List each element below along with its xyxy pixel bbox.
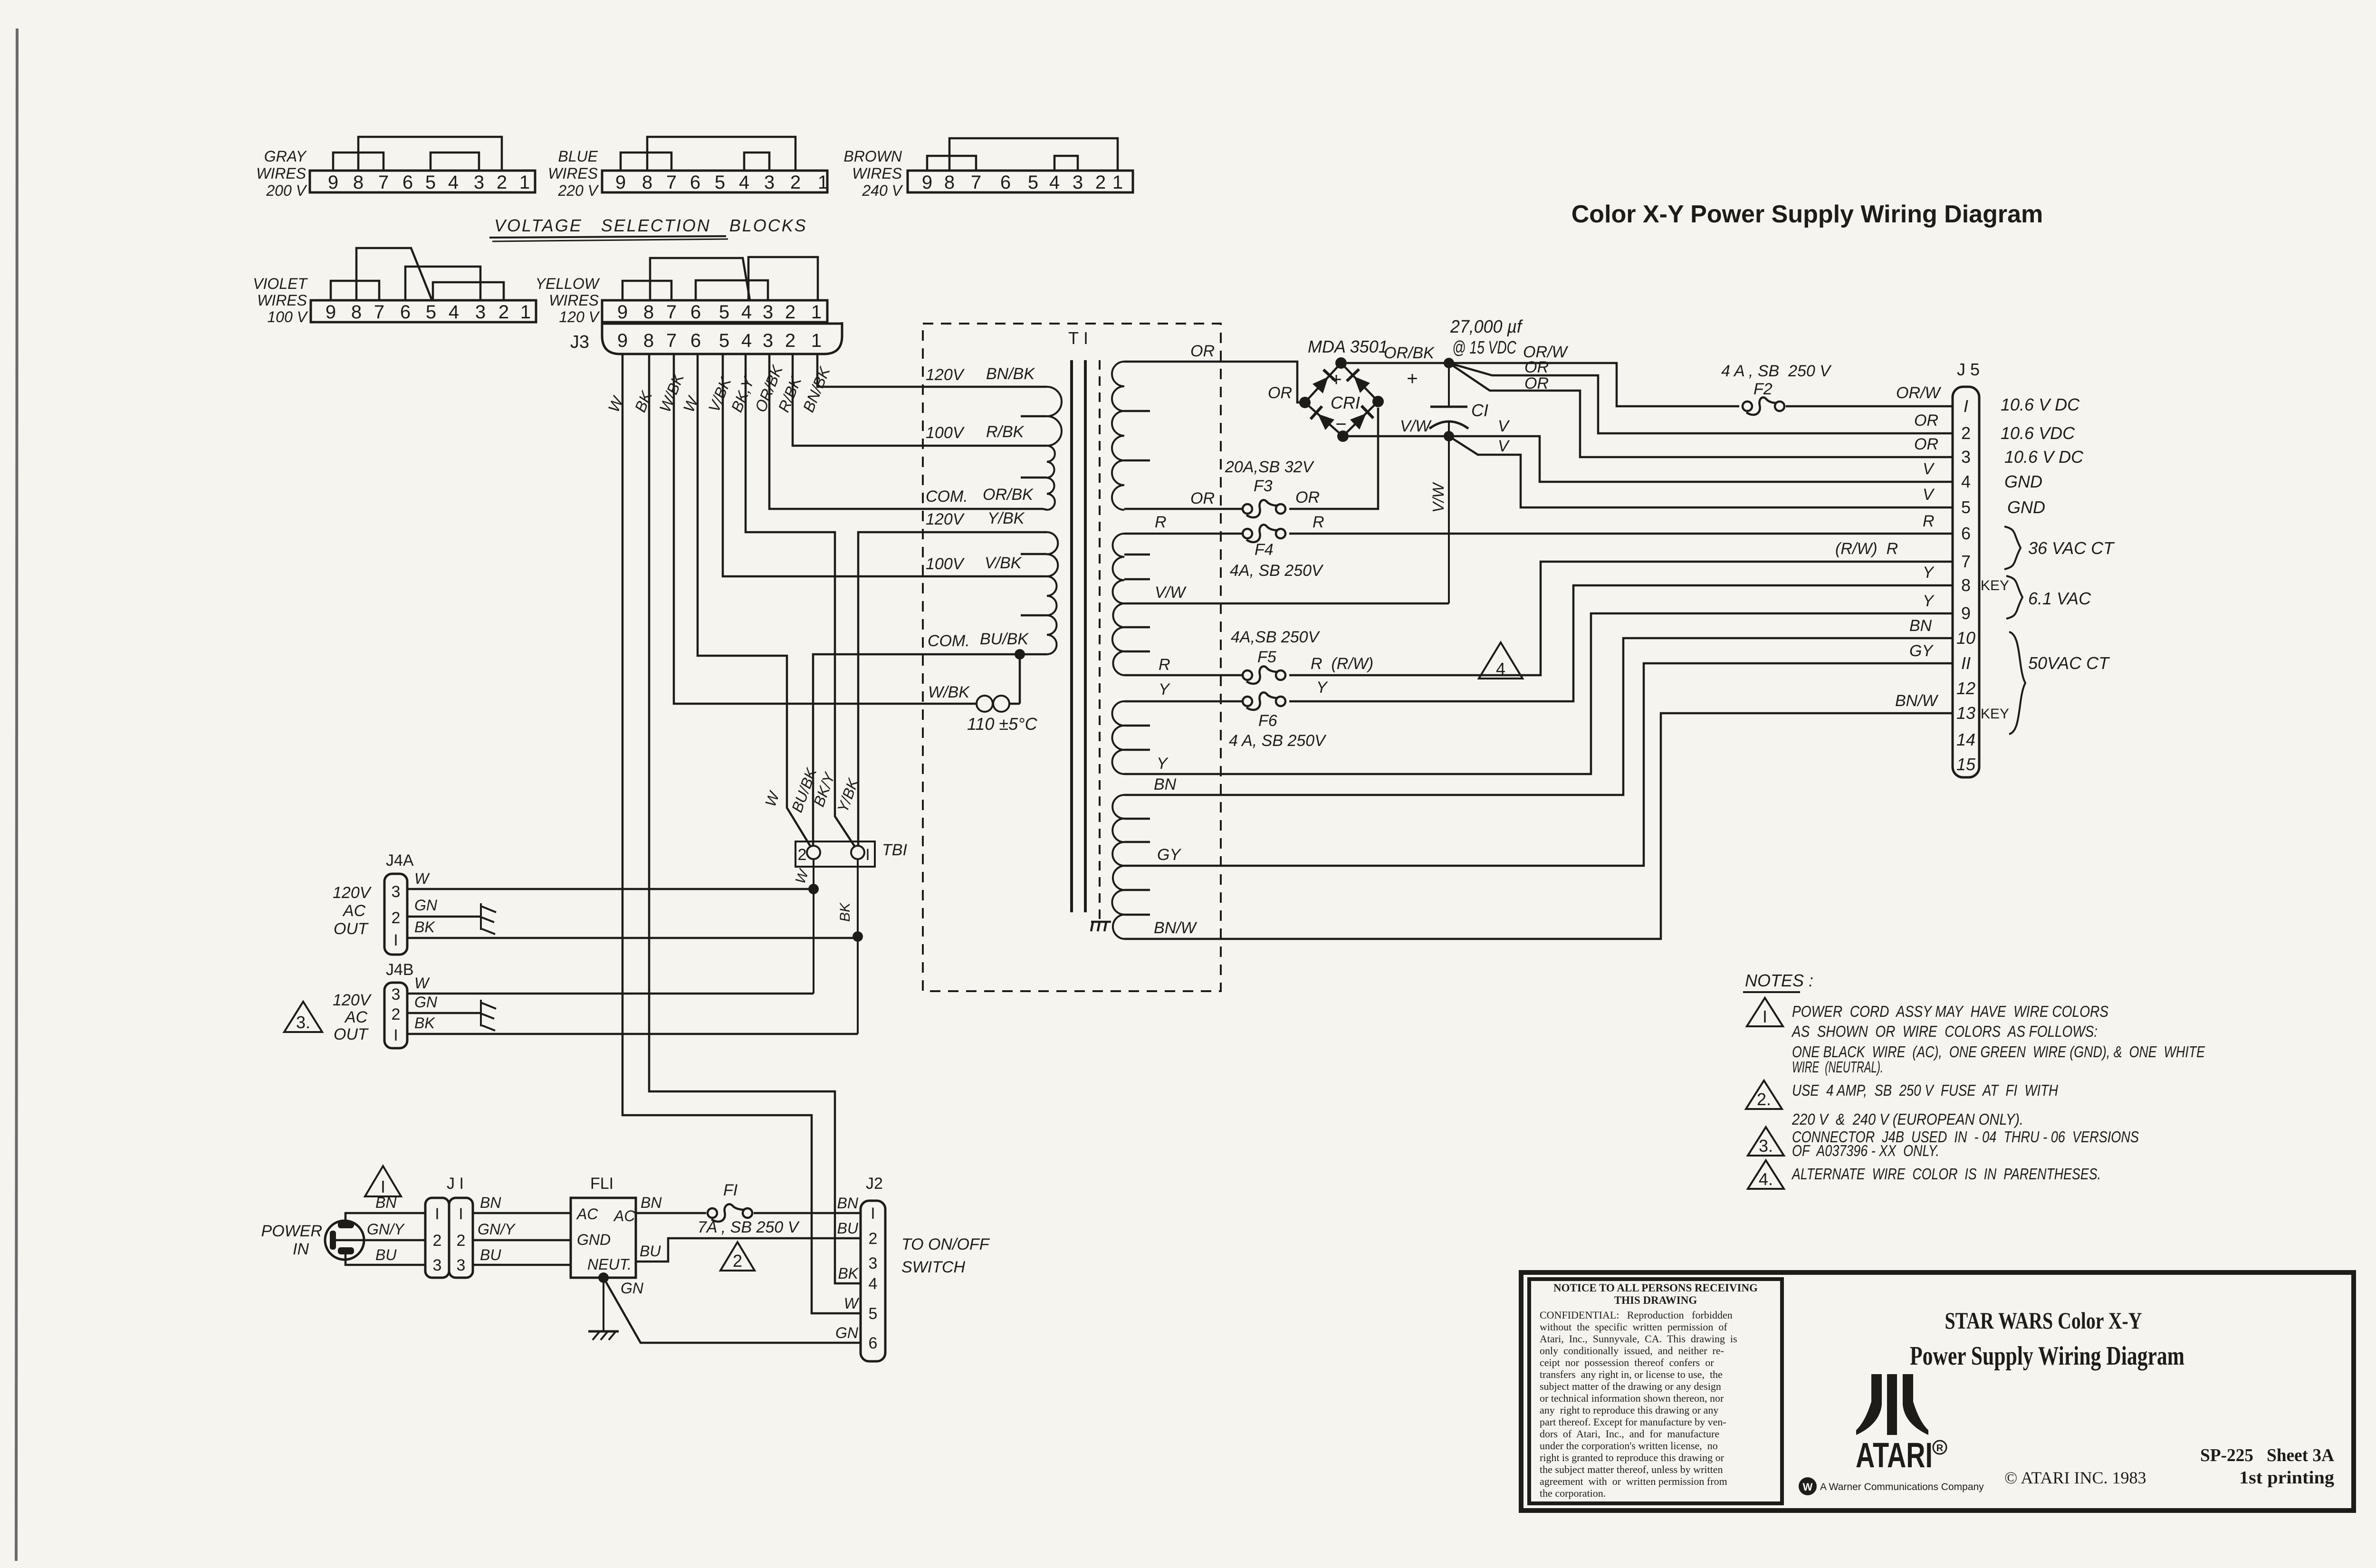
svg-text:J 5: J 5 xyxy=(1957,360,1980,379)
svg-text:OR: OR xyxy=(1914,411,1938,430)
wire BK J4B-1 xyxy=(407,1033,858,1035)
svg-text:W: W xyxy=(793,867,813,886)
svg-text:2: 2 xyxy=(798,846,807,864)
svg-text:1: 1 xyxy=(1112,172,1123,193)
svg-text:ceipt nor possession thereo: ceipt nor possession thereof confers or xyxy=(1540,1357,1714,1368)
wire Y/BK T1 primary 120V to TB1-1 xyxy=(858,532,1043,846)
svg-text:F3: F3 xyxy=(1254,477,1273,495)
svg-text:4: 4 xyxy=(449,302,459,323)
wire OR to J5-3 xyxy=(1449,363,1953,457)
svg-text:3: 3 xyxy=(392,883,401,901)
wire BU J1 to FL1 xyxy=(473,1264,571,1266)
note triangle 1 (power cord) xyxy=(365,1166,401,1196)
svg-text:15: 15 xyxy=(1956,755,1976,774)
svg-text:BLUE: BLUE xyxy=(558,148,598,165)
svg-text:8: 8 xyxy=(643,330,654,351)
svg-text:BROWN: BROWN xyxy=(843,148,902,165)
svg-text:120 V: 120 V xyxy=(559,308,600,325)
svg-text:I: I xyxy=(435,1205,439,1223)
svg-text:(R/W) R: (R/W) R xyxy=(1835,540,1898,558)
svg-text:4A, SB 250V: 4A, SB 250V xyxy=(1230,562,1324,580)
svg-text:@ 15 VDC: @ 15 VDC xyxy=(1452,338,1516,358)
svg-text:−: − xyxy=(1335,414,1346,435)
svg-text:J4A: J4A xyxy=(386,851,414,870)
svg-text:8: 8 xyxy=(642,172,652,193)
svg-text:F5: F5 xyxy=(1257,648,1276,666)
svg-text:2: 2 xyxy=(733,1251,742,1271)
svg-text:Y: Y xyxy=(1157,755,1169,773)
svg-text:WIRES: WIRES xyxy=(852,165,902,182)
voltage block GRAY 200V xyxy=(310,171,535,192)
svg-text:J I: J I xyxy=(447,1175,464,1193)
svg-text:CI: CI xyxy=(1471,401,1488,420)
svg-text:2: 2 xyxy=(433,1232,442,1250)
svg-text:GN: GN xyxy=(835,1324,859,1341)
svg-text:220 V & 240 V (EUROPEAN ONLY: 220 V & 240 V (EUROPEAN ONLY). xyxy=(1792,1110,2023,1128)
chassis ground (J4A GN) xyxy=(480,903,482,930)
svg-text:WIRES: WIRES xyxy=(548,165,598,182)
svg-text:4: 4 xyxy=(1961,472,1971,491)
svg-text:dors of Atari, Inc., and: dors of Atari, Inc., and for manufacture xyxy=(1540,1428,1719,1440)
svg-text:OR: OR xyxy=(1524,374,1549,392)
transformer T1 dashed box xyxy=(923,324,1221,991)
TB1 terminal 2 xyxy=(807,846,820,859)
svg-text:Y: Y xyxy=(1316,679,1328,697)
svg-text:10.6 V DC: 10.6 V DC xyxy=(2001,395,2080,414)
svg-text:+: + xyxy=(1331,369,1341,390)
svg-text:7: 7 xyxy=(374,302,384,323)
svg-text:4.: 4. xyxy=(1759,1169,1773,1189)
T1 secondary winding Y-Y xyxy=(1112,701,1125,774)
T1 secondary ticks S3 xyxy=(1124,725,1150,727)
wire BN plug to J1-1 xyxy=(345,1213,425,1221)
svg-text:VOLTAGE SELECTION BLOCKS: VOLTAGE SELECTION BLOCKS xyxy=(494,216,807,235)
svg-text:6: 6 xyxy=(869,1334,878,1352)
wire W TB1-2 down xyxy=(813,859,814,994)
svg-text:STAR WARS Color X-Y: STAR WARS Color X-Y xyxy=(1945,1307,2142,1334)
fuse F6 xyxy=(1243,697,1252,706)
svg-text:BN: BN xyxy=(480,1194,501,1211)
svg-text:GN/Y: GN/Y xyxy=(367,1221,405,1238)
svg-text:6: 6 xyxy=(1961,524,1971,543)
svg-text:YELLOW: YELLOW xyxy=(536,275,600,292)
svg-text:9: 9 xyxy=(922,172,932,193)
svg-text:without the specific writte: without the specific written permission … xyxy=(1540,1321,1727,1333)
svg-text:14: 14 xyxy=(1956,730,1975,749)
svg-text:3: 3 xyxy=(392,985,401,1004)
wire Y to F6 xyxy=(1124,700,1244,703)
connector J3 xyxy=(602,322,842,354)
thermal cutoff 110C xyxy=(977,696,993,712)
wire OR/BK bridge to C1 xyxy=(1347,362,1449,364)
svg-text:7: 7 xyxy=(666,172,677,193)
svg-text:AC: AC xyxy=(342,902,366,920)
svg-text:CONFIDENTIAL: Reproduction: CONFIDENTIAL: Reproduction forbidden xyxy=(1540,1309,1733,1321)
svg-text:BK: BK xyxy=(837,902,853,922)
TB1 terminal 1 xyxy=(851,846,864,859)
svg-text:6: 6 xyxy=(1000,172,1011,193)
wire BN F1 to J2-1 xyxy=(754,1212,861,1214)
voltage block BROWN 240V xyxy=(908,171,1133,192)
svg-text:50VAC CT: 50VAC CT xyxy=(2028,653,2110,673)
wire V/W C1 to transformer xyxy=(1448,436,1450,603)
svg-text:I: I xyxy=(871,1205,875,1223)
svg-text:GN: GN xyxy=(414,897,438,914)
svg-text:Power Supply Wiring Diagram: Power Supply Wiring Diagram xyxy=(1910,1341,2184,1371)
svg-text:1: 1 xyxy=(811,302,822,323)
svg-text:R (R/W): R (R/W) xyxy=(1311,655,1373,673)
svg-text:OR/W: OR/W xyxy=(1896,384,1941,402)
svg-text:OR/BK: OR/BK xyxy=(1384,344,1435,362)
svg-text:4 A , SB 250 V: 4 A , SB 250 V xyxy=(1721,362,1832,380)
junction dot BU/BK at thermal cutoff xyxy=(1015,649,1025,660)
svg-text:WIRES: WIRES xyxy=(256,165,306,182)
svg-text:W: W xyxy=(844,1295,860,1312)
svg-text:AC: AC xyxy=(576,1205,598,1223)
svg-text:KEY: KEY xyxy=(1981,706,2009,722)
svg-text:OF A037396 - XX ONLY.: OF A037396 - XX ONLY. xyxy=(1792,1142,1939,1159)
svg-text:BK: BK xyxy=(631,388,656,415)
svg-text:1: 1 xyxy=(811,330,822,351)
svg-text:2: 2 xyxy=(1095,172,1106,193)
svg-text:T I: T I xyxy=(1068,328,1088,348)
T1 secondary winding GY-BN/W xyxy=(1112,866,1124,939)
wire BN FL1 to F1 xyxy=(636,1212,706,1214)
svg-text:3: 3 xyxy=(763,302,773,323)
wire BK J4A-1 xyxy=(407,937,858,939)
svg-text:+: + xyxy=(1407,368,1418,389)
svg-text:OR/BK: OR/BK xyxy=(983,486,1034,504)
svg-text:V/W: V/W xyxy=(1155,583,1187,602)
svg-text:7: 7 xyxy=(666,302,677,323)
svg-text:3.: 3. xyxy=(1759,1136,1773,1156)
wire BN/W to J5-13 xyxy=(1124,713,1953,939)
svg-text:120V: 120V xyxy=(926,510,965,528)
svg-text:100V: 100V xyxy=(926,555,965,573)
svg-text:POWER CORD ASSY MAY HAVE W: POWER CORD ASSY MAY HAVE WIRE COLORS xyxy=(1792,1003,2108,1020)
chassis ground (J4B GN) xyxy=(480,1000,482,1026)
wire W J3-6 to TB1-2 xyxy=(698,354,811,847)
note triangle 1 xyxy=(1747,998,1783,1026)
svg-text:MDA 3501: MDA 3501 xyxy=(1308,337,1388,356)
svg-text:8: 8 xyxy=(1961,575,1971,595)
wire OR to J5-2 xyxy=(1449,363,1953,433)
svg-text:I: I xyxy=(381,1177,385,1196)
wire GN/Y plug to J1-2 xyxy=(336,1239,425,1242)
svg-text:OR: OR xyxy=(1190,489,1215,507)
svg-text:V: V xyxy=(1923,486,1935,504)
svg-text:V: V xyxy=(1923,460,1935,478)
svg-text:OUT: OUT xyxy=(334,920,369,938)
svg-text:9: 9 xyxy=(326,302,336,323)
svg-text:BU: BU xyxy=(480,1246,501,1263)
svg-text:A Warner Communications Compan: A Warner Communications Company xyxy=(1820,1482,1984,1492)
T1 primary tap stubs 2 xyxy=(1043,531,1047,534)
svg-text:VIOLET: VIOLET xyxy=(253,275,308,292)
wire GY to J5-11 xyxy=(1124,663,1953,866)
connector J4B xyxy=(384,983,407,1048)
svg-text:F2: F2 xyxy=(1753,380,1772,398)
svg-text:Atari, Inc., Sunnyvale, CA.: Atari, Inc., Sunnyvale, CA. This drawing… xyxy=(1540,1333,1737,1345)
svg-text:POWER: POWER xyxy=(261,1222,322,1240)
svg-text:8: 8 xyxy=(353,172,364,193)
svg-text:7: 7 xyxy=(378,172,389,193)
svg-text:I: I xyxy=(1964,396,1968,416)
wire R F4 to J5-6 xyxy=(1289,533,1953,535)
wire R to F4 xyxy=(1124,533,1244,535)
svg-text:BU: BU xyxy=(640,1243,661,1260)
svg-text:R: R xyxy=(1155,513,1167,531)
svg-text:5: 5 xyxy=(719,330,729,351)
svg-text:right is granted to reproduce: right is granted to reproduce this drawi… xyxy=(1540,1452,1725,1463)
note triangle 4 (wire color) xyxy=(1479,642,1523,679)
wire V/BK J3-5 to T1 primary 100V xyxy=(723,354,1043,576)
svg-text:GND: GND xyxy=(2004,472,2042,491)
svg-text:4: 4 xyxy=(741,302,752,323)
voltage block YELLOW 120V xyxy=(602,300,827,322)
wire BU/BK T1 primary COM to TB1-2 xyxy=(813,654,1020,846)
svg-text:BN: BN xyxy=(641,1194,662,1211)
svg-text:© ATARI INC. 1983: © ATARI INC. 1983 xyxy=(2004,1468,2146,1487)
wire BU FL1 to J2-2 xyxy=(636,1238,861,1262)
svg-text:Y: Y xyxy=(1923,592,1935,610)
svg-text:9: 9 xyxy=(615,172,626,193)
svg-text:BN: BN xyxy=(1154,775,1177,794)
svg-text:W: W xyxy=(414,975,430,992)
wire OR bottom to F3 xyxy=(1124,508,1244,510)
bridge rectifier CR1 MDA 3501 xyxy=(1305,363,1378,436)
junction dot C1 bottom xyxy=(1444,431,1454,441)
earth ground (FL1) xyxy=(588,1330,619,1333)
svg-text:9: 9 xyxy=(1961,603,1971,623)
svg-text:OR: OR xyxy=(1295,488,1320,507)
power in plug xyxy=(325,1221,364,1260)
svg-text:any right to reproduce this d: any right to reproduce this drawing or a… xyxy=(1540,1404,1718,1416)
svg-text:J3: J3 xyxy=(570,332,589,352)
svg-text:4: 4 xyxy=(739,172,749,193)
note triangle 3 xyxy=(1748,1127,1784,1156)
svg-text:FLI: FLI xyxy=(590,1175,613,1193)
fuse F3 xyxy=(1243,504,1252,514)
wire BU plug to J1-3 xyxy=(345,1254,425,1265)
svg-text:AC: AC xyxy=(613,1207,635,1224)
junction dot BK xyxy=(853,931,863,942)
svg-text:2: 2 xyxy=(869,1230,878,1248)
wire NEUT to earth ground xyxy=(603,1278,604,1330)
T1 secondary winding V/W-R xyxy=(1112,603,1124,675)
svg-text:6: 6 xyxy=(402,172,413,193)
svg-text:GRAY: GRAY xyxy=(264,148,307,165)
svg-text:10.6 VDC: 10.6 VDC xyxy=(2001,423,2075,443)
wire BK TB1-1 down xyxy=(857,859,859,1034)
svg-text:6.1 VAC: 6.1 VAC xyxy=(2028,589,2091,608)
svg-text:7: 7 xyxy=(1961,552,1971,571)
svg-text:6: 6 xyxy=(690,302,701,323)
wire V to J5-5 xyxy=(1449,436,1953,507)
wire V/W to C1 xyxy=(1124,602,1449,605)
wire V/W bridge to C1 xyxy=(1349,435,1449,438)
svg-text:THIS DRAWING: THIS DRAWING xyxy=(1614,1294,1697,1306)
svg-text:under the corporation's writte: under the corporation's written license,… xyxy=(1540,1440,1718,1452)
svg-text:4: 4 xyxy=(869,1275,878,1293)
svg-text:4: 4 xyxy=(741,330,752,351)
svg-text:WIRES: WIRES xyxy=(257,292,307,309)
svg-text:I: I xyxy=(459,1205,463,1223)
svg-text:W: W xyxy=(762,788,783,809)
svg-text:5: 5 xyxy=(719,302,729,323)
svg-text:7: 7 xyxy=(971,172,981,193)
svg-text:AC: AC xyxy=(344,1008,368,1026)
svg-text:V/BK: V/BK xyxy=(985,554,1022,572)
svg-text:2: 2 xyxy=(785,330,795,351)
wire BN/BK J3-1 to T1 primary 120V xyxy=(817,354,1043,387)
svg-text:the corporation.: the corporation. xyxy=(1540,1487,1606,1499)
svg-text:4 A, SB 250V: 4 A, SB 250V xyxy=(1229,732,1327,750)
svg-text:R: R xyxy=(1159,656,1170,674)
connector J2 xyxy=(861,1201,885,1361)
svg-text:OUT: OUT xyxy=(334,1025,369,1043)
svg-text:BU: BU xyxy=(837,1220,859,1237)
svg-text:GY: GY xyxy=(1157,846,1181,864)
svg-text:OR: OR xyxy=(1524,358,1549,376)
svg-text:Y/BK: Y/BK xyxy=(987,509,1025,527)
svg-text:5: 5 xyxy=(1961,497,1971,517)
wire V to J5-4 xyxy=(1449,436,1953,482)
svg-text:BU: BU xyxy=(375,1246,397,1263)
svg-text:GN: GN xyxy=(414,994,438,1011)
svg-text:1st printing: 1st printing xyxy=(2239,1468,2334,1488)
svg-text:OR: OR xyxy=(1268,384,1292,402)
svg-text:8: 8 xyxy=(944,172,955,193)
svg-text:3: 3 xyxy=(433,1256,442,1274)
svg-text:2: 2 xyxy=(457,1232,466,1250)
svg-text:Y: Y xyxy=(1159,680,1170,698)
svg-text:BK: BK xyxy=(838,1265,859,1282)
svg-text:BK: BK xyxy=(414,1014,435,1032)
svg-text:2: 2 xyxy=(785,302,795,323)
voltage block BLUE 220V xyxy=(602,171,827,192)
svg-text:TBI: TBI xyxy=(882,841,907,859)
svg-text:II: II xyxy=(1961,653,1971,673)
brace 36 VAC CT xyxy=(2004,526,2021,569)
svg-text:120V: 120V xyxy=(333,884,372,902)
brace 50 VAC CT xyxy=(2009,632,2025,734)
T1 secondary ticks S1 xyxy=(1124,410,1150,412)
svg-text:or technical information shown: or technical information shown thereon, … xyxy=(1540,1392,1724,1404)
wire W J4B-3 xyxy=(407,993,814,995)
wire R/BK J3-2 to T1 primary 100V xyxy=(793,354,1043,446)
svg-text:BN: BN xyxy=(1909,617,1932,635)
wire W J4A-3 xyxy=(407,888,814,890)
fuse F2 xyxy=(1743,402,1752,411)
svg-text:I: I xyxy=(393,1026,398,1044)
wire OR F3 to bridge xyxy=(1289,408,1378,509)
svg-text:GY: GY xyxy=(1909,642,1934,660)
svg-text:5: 5 xyxy=(426,302,436,323)
svg-text:5: 5 xyxy=(715,172,725,193)
wire Y2 to J5-9 xyxy=(1124,613,1953,774)
svg-text:4A,SB 250V: 4A,SB 250V xyxy=(1231,628,1321,646)
T1 primary winding 1 (BN/BK-R/BK) xyxy=(1047,387,1062,446)
connector J5 xyxy=(1953,387,1979,777)
svg-text:7: 7 xyxy=(666,330,677,351)
svg-text:6: 6 xyxy=(690,172,700,193)
connector J4A xyxy=(384,874,407,955)
svg-text:3: 3 xyxy=(869,1254,878,1272)
wire GN J4B-2 xyxy=(407,1012,481,1014)
svg-text:120V: 120V xyxy=(926,366,965,384)
svg-text:240 V: 240 V xyxy=(862,182,903,199)
T1 secondary ticks S2 xyxy=(1124,554,1150,556)
svg-text:WIRES: WIRES xyxy=(549,292,599,309)
svg-text:V/W: V/W xyxy=(1400,417,1432,435)
wire GN/Y J1 to FL1 xyxy=(473,1239,571,1242)
svg-text:100 V: 100 V xyxy=(267,308,308,325)
T1 core ground xyxy=(1091,921,1111,923)
T1 secondary ticks S4 xyxy=(1124,818,1150,820)
T1 secondary winding R-V/W xyxy=(1113,534,1125,603)
svg-text:W: W xyxy=(1803,1481,1813,1493)
svg-text:NOTES :: NOTES : xyxy=(1745,971,1813,990)
T1 secondary winding OR-OR xyxy=(1112,362,1124,510)
svg-text:BN/W: BN/W xyxy=(1895,692,1939,710)
svg-text:NEUT.: NEUT. xyxy=(587,1256,632,1273)
wire R(R/W) F5 to J5-7 xyxy=(1289,562,1953,675)
svg-text:6: 6 xyxy=(400,302,411,323)
junction dot W xyxy=(808,884,819,894)
svg-text:Color X-Y Power Supply Wiring: Color X-Y Power Supply Wiring Diagram xyxy=(1571,201,2043,228)
Warner logo xyxy=(1799,1477,1817,1495)
svg-text:3.: 3. xyxy=(296,1013,310,1032)
svg-text:only conditionally issued,: only conditionally issued, and neither r… xyxy=(1540,1345,1724,1357)
wire BK J3-8 to J2-4 xyxy=(649,354,861,1283)
wire OR/W F2 to J5-1 xyxy=(1786,405,1953,408)
svg-text:F4: F4 xyxy=(1255,541,1274,559)
T1 secondary winding BN-GY xyxy=(1112,795,1124,866)
svg-text:4: 4 xyxy=(448,172,459,193)
registered mark xyxy=(1933,1441,1946,1454)
junction dot NEUT xyxy=(598,1272,609,1283)
svg-text:WIRE (NEUTRAL).: WIRE (NEUTRAL). xyxy=(1792,1058,1883,1076)
note triangle 2 xyxy=(1746,1080,1782,1109)
svg-text:20A,SB 32V: 20A,SB 32V xyxy=(1225,458,1315,476)
connector J1 xyxy=(425,1198,449,1278)
wire GN FL1 to J2-6 xyxy=(604,1278,861,1343)
svg-text:7A , SB 250 V: 7A , SB 250 V xyxy=(698,1218,800,1236)
svg-text:R: R xyxy=(1923,512,1935,530)
T1 primary winding 2 (V/BK-BU/BK) xyxy=(1047,576,1057,654)
T1 primary winding 2 (Y/BK-V/BK) xyxy=(1047,532,1058,576)
wire OR/W C1 to F2 xyxy=(1449,363,1739,406)
svg-text:9: 9 xyxy=(617,302,628,323)
svg-text:BN/W: BN/W xyxy=(1154,919,1198,937)
fuse F1 xyxy=(708,1208,717,1218)
svg-text:36 VAC CT: 36 VAC CT xyxy=(2028,538,2115,558)
svg-text:BN: BN xyxy=(375,1194,397,1211)
svg-text:4: 4 xyxy=(1049,172,1060,193)
svg-text:OR: OR xyxy=(1190,342,1215,360)
svg-text:subject matter of the drawing: subject matter of the drawing or any des… xyxy=(1540,1380,1721,1392)
svg-text:5: 5 xyxy=(869,1305,878,1323)
svg-text:2: 2 xyxy=(392,909,401,927)
svg-text:OR: OR xyxy=(1914,435,1938,453)
svg-text:I: I xyxy=(1763,1007,1767,1026)
svg-text:R/BK: R/BK xyxy=(986,423,1025,441)
svg-text:BN/BK: BN/BK xyxy=(986,365,1035,383)
svg-text:2.: 2. xyxy=(1757,1090,1771,1109)
wire Y F6 to J5-8 xyxy=(1289,585,1953,701)
svg-text:8: 8 xyxy=(643,302,654,323)
